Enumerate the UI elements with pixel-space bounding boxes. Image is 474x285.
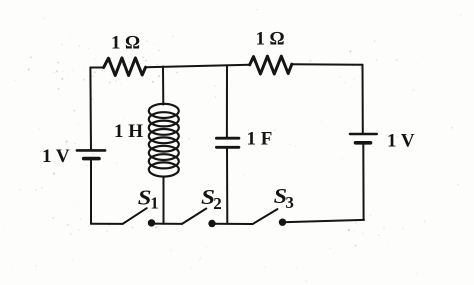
resistor R2 (1 ohm, right) — [250, 56, 292, 74]
svg-text:1 Ω: 1 Ω — [256, 29, 285, 50]
wire right vertical lower — [362, 143, 364, 220]
svg-text:1 H: 1 H — [114, 121, 143, 142]
wire right vertical upper — [362, 65, 364, 134]
svg-text:1: 1 — [150, 193, 159, 212]
svg-text:1 V: 1 V — [42, 146, 70, 167]
wire bottom rail segment 1 — [91, 223, 123, 225]
wire top rail right segment — [292, 63, 363, 66]
svg-text:1 Ω: 1 Ω — [111, 33, 140, 54]
wire inductor branch bottom — [163, 177, 165, 224]
svg-text:3: 3 — [285, 193, 294, 212]
battery B2 long plate — [350, 133, 377, 135]
inductor L1 coil — [149, 104, 179, 177]
capacitor C1 bottom plate — [216, 146, 239, 149]
wire top rail left segment — [90, 67, 103, 69]
wire bottom rail segment 3 — [212, 223, 253, 225]
wire top rail middle segment — [146, 65, 250, 67]
battery B1 short plate — [84, 157, 99, 161]
node S2 contact dot — [208, 220, 215, 227]
capacitor C1 top plate — [216, 137, 239, 140]
wire bottom rail segment 4 — [283, 220, 365, 222]
wire capacitor branch top — [226, 66, 228, 137]
node S3 contact dot — [279, 219, 286, 226]
wire left vertical lower — [90, 159, 92, 224]
switch S1 blade — [123, 208, 147, 224]
resistor R1 (1 ohm, left) — [104, 58, 146, 76]
wire left vertical upper — [89, 68, 92, 151]
node S1 contact dot — [148, 219, 155, 226]
svg-text:2: 2 — [213, 194, 222, 213]
switch S2 blade — [182, 209, 206, 224]
wire capacitor branch bottom — [226, 147, 228, 224]
battery B2 short plate — [356, 141, 371, 145]
wire bottom rail segment 2 — [152, 223, 183, 225]
switch S3 blade — [253, 209, 278, 224]
wire inductor branch top — [162, 67, 164, 105]
battery B1 long plate — [77, 149, 105, 152]
svg-text:1 F: 1 F — [247, 129, 273, 150]
svg-text:1 V: 1 V — [387, 130, 415, 151]
